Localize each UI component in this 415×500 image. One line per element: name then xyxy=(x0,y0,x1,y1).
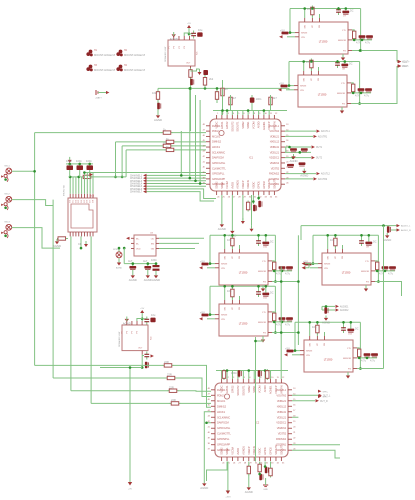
svg-text:U9: U9 xyxy=(366,247,370,249)
junction U8 output xyxy=(358,102,361,105)
wire U12 cc stub xyxy=(366,356,368,359)
power U4 vcc xyxy=(140,308,145,316)
svg-text:PDN2: PDN2 xyxy=(212,129,219,133)
svg-text:MOUNT-HOLE2.8: MOUNT-HOLE2.8 xyxy=(94,68,115,72)
svg-text:+5V: +5V xyxy=(200,311,205,315)
junction U7 out xyxy=(361,39,364,42)
wire IC2 top bus xyxy=(216,370,288,372)
net flag AUDIO1 xyxy=(336,305,350,309)
svg-text:12: 12 xyxy=(282,377,285,379)
svg-text:VC: VC xyxy=(232,307,234,310)
svg-text:VC: VC xyxy=(311,78,313,81)
wire IC1 out R11 xyxy=(285,178,313,180)
capacitor Cd U12 xyxy=(371,353,378,357)
wire U10 out bus xyxy=(272,270,292,272)
svg-text:SDOUT2: SDOUT2 xyxy=(274,444,278,455)
svg-text:4k7: 4k7 xyxy=(232,96,237,100)
junction U8 top xyxy=(302,60,305,63)
wire U9 sw xyxy=(327,235,329,249)
wire rail 298 xyxy=(297,235,299,345)
wire IC1 top pin drop xyxy=(252,111,254,116)
wire IC2 bot6 xyxy=(227,462,229,491)
junction U8 vin xyxy=(288,84,291,87)
svg-text:VCOM: VCOM xyxy=(258,385,262,393)
svg-text:CHANNEL5: CHANNEL5 xyxy=(130,185,143,188)
svg-text:41: 41 xyxy=(203,161,206,163)
svg-text:GPIO1: GPIO1 xyxy=(225,385,229,393)
ground SD xyxy=(53,239,61,248)
svg-text:VIN: VIN xyxy=(300,90,304,92)
wire U9 left rail xyxy=(313,235,318,263)
wire U7 gnd stub xyxy=(342,54,344,58)
wire cap C22 stub xyxy=(89,164,91,166)
wire cap U3-0 low xyxy=(132,270,134,273)
wire U12 sw xyxy=(309,322,311,336)
junction audio bus xyxy=(382,224,385,227)
wire U9 fb xyxy=(342,245,344,249)
svg-text:SDIN2: SDIN2 xyxy=(247,385,251,393)
svg-text:VC: VC xyxy=(335,256,337,259)
svg-text:40: 40 xyxy=(208,432,211,434)
svg-text:8: 8 xyxy=(260,377,262,379)
wire U10 row1 xyxy=(272,260,274,262)
svg-text:CHANNEL6: CHANNEL6 xyxy=(130,188,143,191)
capacitor C21 xyxy=(77,165,84,170)
wire U11 vc xyxy=(231,286,233,300)
svg-text:MOUNT-HOLE2.8: MOUNT-HOLE2.8 xyxy=(124,68,145,72)
net flag U9 a xyxy=(302,262,305,265)
wire U4 out down xyxy=(141,355,143,368)
svg-text:OUT_R: OUT_R xyxy=(320,401,328,403)
capacitor C52 xyxy=(287,164,294,168)
resistor R36 xyxy=(246,201,249,212)
capacitor Cc U8 xyxy=(358,88,365,92)
resistor R32 xyxy=(221,87,224,98)
junction crossing xyxy=(254,340,257,343)
svg-text:VCOM: VCOM xyxy=(251,121,255,129)
svg-text:1: 1 xyxy=(217,113,219,115)
capacitor Cb U9 xyxy=(365,242,372,246)
svg-text:DAI/FSCM: DAI/FSCM xyxy=(212,156,225,160)
wire cap U3-0 xyxy=(132,264,134,266)
svg-text:ERROR: ERROR xyxy=(338,40,346,42)
wire C60 stub xyxy=(386,225,388,228)
IC U7 boost regulator LT1930 xyxy=(295,16,352,55)
svg-text:CD: CD xyxy=(78,243,82,246)
svg-text:29: 29 xyxy=(249,462,252,464)
svg-text:26: 26 xyxy=(228,196,231,198)
junction riser xyxy=(114,176,117,179)
junction U9 top xyxy=(368,234,371,237)
wire IC2 bot1 xyxy=(207,462,228,482)
mount hole H3 xyxy=(86,65,115,72)
wire U7 output xyxy=(352,51,397,62)
junction bot xyxy=(257,197,260,200)
net flag AUDIO2 xyxy=(336,308,350,312)
wire U8 left rail xyxy=(289,62,294,86)
wire riser SD3 xyxy=(125,150,127,177)
wire IC1 top pin drop xyxy=(226,111,228,116)
wire IC2 right4 xyxy=(292,450,340,458)
wire vertical rail A xyxy=(34,133,36,366)
svg-text:33: 33 xyxy=(271,462,274,464)
svg-text:32: 32 xyxy=(266,462,269,464)
junction U7 top xyxy=(311,7,314,10)
wire IC2 bot2 low xyxy=(248,474,250,485)
wire net to IC1 pin2 xyxy=(35,132,162,134)
svg-text:VREFN: VREFN xyxy=(272,121,276,130)
svg-text:VDDC: VDDC xyxy=(251,182,255,189)
wire U7 left rail xyxy=(290,9,295,33)
ground C50 xyxy=(289,154,297,163)
junction U8 top xyxy=(344,60,347,63)
wire R34 drop xyxy=(270,95,272,111)
wire IC2 top pin drop xyxy=(231,371,233,380)
wire U10 top loop xyxy=(210,234,275,236)
svg-text:SPEAKER 3.2W: SPEAKER 3.2W xyxy=(164,47,167,62)
IC U11 boost regulator LT1930 xyxy=(215,298,272,337)
capacitor Cd U8 xyxy=(365,88,372,92)
svg-text:PG: PG xyxy=(263,282,266,284)
svg-text:U8: U8 xyxy=(342,69,346,71)
wire U10 sw xyxy=(224,235,226,249)
svg-text:SDOUT1: SDOUT1 xyxy=(279,444,283,455)
wire cap C21 low xyxy=(79,170,81,177)
wire U11 gnd stub xyxy=(262,336,264,340)
svg-text:AVDD: AVDD xyxy=(230,182,234,189)
junction mic gnd xyxy=(4,178,7,181)
svg-text:EN: EN xyxy=(151,244,154,246)
svg-text:VREFP: VREFP xyxy=(247,446,251,455)
wire U8 output xyxy=(351,66,397,104)
wire net SD bus A2 xyxy=(92,176,127,178)
power U12 +BATT xyxy=(287,350,294,353)
svg-text:AGND: AGND xyxy=(322,321,330,325)
capacitor C4A xyxy=(144,352,149,360)
wire IC1 bot pin2 down xyxy=(221,195,223,222)
wire U9 capfb xyxy=(361,235,363,241)
svg-text:PG: PG xyxy=(342,104,345,106)
wire U9 vc xyxy=(334,235,336,249)
svg-text:AGND: AGND xyxy=(170,37,178,41)
svg-text:GPIO2: GPIO2 xyxy=(262,181,266,189)
svg-text:IN-: IN- xyxy=(136,244,139,246)
inductor L U10 xyxy=(231,237,234,248)
svg-text:47: 47 xyxy=(203,130,206,132)
connector JP2 audio in xyxy=(397,224,412,232)
capacitor C41 xyxy=(197,32,202,36)
svg-text:VIN: VIN xyxy=(221,268,225,270)
svg-text:13: 13 xyxy=(293,388,296,390)
svg-text:4: 4 xyxy=(239,377,241,379)
junction U11 vin xyxy=(209,313,212,316)
svg-text:AOUTL1: AOUTL1 xyxy=(321,130,331,133)
svg-text:GPIO1: GPIO1 xyxy=(220,121,224,129)
net flag OUT_R xyxy=(316,399,329,403)
wire net CHANNEL6 xyxy=(147,189,217,199)
svg-text:10u: 10u xyxy=(312,325,317,329)
svg-text:4: 4 xyxy=(233,113,235,115)
wire IC2 bot3 xyxy=(259,462,261,465)
svg-text:AGND: AGND xyxy=(289,159,297,163)
svg-text:AGND: AGND xyxy=(144,278,152,282)
net flag SD VDD xyxy=(90,173,93,176)
svg-text:VC: VC xyxy=(232,256,234,259)
power U9 +BATT xyxy=(305,263,312,266)
svg-text:IC5: IC5 xyxy=(197,51,199,55)
svg-text:AGND: AGND xyxy=(383,238,391,242)
svg-text:VDBL31: VDBL31 xyxy=(270,145,280,149)
svg-text:41: 41 xyxy=(208,427,211,429)
wire riser SD1 xyxy=(115,142,117,177)
svg-text:46: 46 xyxy=(203,135,206,137)
svg-text:MCLK1: MCLK1 xyxy=(217,399,226,403)
svg-text:AGND: AGND xyxy=(245,490,253,494)
junction U4 bottom xyxy=(141,366,144,369)
svg-text:10u: 10u xyxy=(198,28,203,32)
svg-text:GND: GND xyxy=(263,489,268,491)
svg-text:100n: 100n xyxy=(231,371,237,375)
capacitor C20 xyxy=(67,165,74,170)
svg-text:U12: U12 xyxy=(348,334,353,336)
wire IC1 bot pin6 down xyxy=(242,195,244,218)
LED LED1 xyxy=(113,249,122,258)
wire U8 cd stub xyxy=(368,91,370,94)
svg-text:SDOUT2: SDOUT2 xyxy=(230,121,234,132)
junction U7 top xyxy=(337,7,340,10)
svg-text:VDBL21: VDBL21 xyxy=(270,134,280,138)
wire IC1 top pin drop xyxy=(263,111,265,116)
svg-text:AGND: AGND xyxy=(116,267,123,270)
junction cap bus xyxy=(147,262,150,265)
svg-text:SDOUT1: SDOUT1 xyxy=(236,121,240,132)
wire net CHANNEL2 xyxy=(147,177,207,179)
wire vertical rail D xyxy=(90,236,92,403)
svg-text:SD1: SD1 xyxy=(90,196,95,198)
net flag AOUTR1 xyxy=(314,135,328,139)
svg-text:6: 6 xyxy=(243,113,245,115)
wire SD pin 5 xyxy=(81,177,83,194)
wire U10 vc xyxy=(231,235,233,249)
capacitor C61 xyxy=(324,307,328,313)
junction U11 top xyxy=(257,285,260,288)
svg-text:H4: H4 xyxy=(124,65,128,67)
svg-text:GPIO/CASL: GPIO/CASL xyxy=(217,426,231,430)
IC U9 boost regulator LT1930 xyxy=(318,247,375,286)
wire U9 top loop xyxy=(313,234,378,236)
junction mid xyxy=(180,174,183,177)
svg-text:HXDL12: HXDL12 xyxy=(270,140,280,144)
ground C31 xyxy=(144,273,152,282)
resistor R62 xyxy=(247,465,250,476)
net flag AOUTR2 xyxy=(314,177,328,181)
capacitor Cd U11 xyxy=(286,317,293,321)
wire U9 row1 xyxy=(375,260,377,262)
wire U4 in link xyxy=(137,319,142,322)
junction U12 top xyxy=(342,321,345,324)
junction caps xyxy=(88,163,91,166)
svg-text:42: 42 xyxy=(203,156,206,158)
svg-text:VIN: VIN xyxy=(221,319,225,321)
wire audio bus left drop xyxy=(300,226,302,240)
wire U11 vin xyxy=(207,318,215,320)
wire step net1 xyxy=(35,364,163,366)
wire step net4 b xyxy=(180,402,211,404)
svg-text:11: 11 xyxy=(277,377,280,379)
svg-text:3: 3 xyxy=(228,113,230,115)
svg-text:SDOUT2: SDOUT2 xyxy=(267,178,271,189)
svg-text:AGND: AGND xyxy=(218,227,226,231)
wire IC1 out R10 xyxy=(285,173,316,175)
svg-text:IC4: IC4 xyxy=(151,336,153,340)
resistor R40 xyxy=(189,68,192,79)
capacitor Ca U9 xyxy=(359,238,364,246)
wire IC1 top pin drop xyxy=(242,111,244,116)
wire U12 cd stub xyxy=(374,356,376,359)
svg-text:LT1930: LT1930 xyxy=(239,322,248,326)
wire cap C20 stub xyxy=(69,164,71,166)
wire IC2 top pin drop xyxy=(248,371,250,380)
svg-text:IC1: IC1 xyxy=(249,156,254,160)
inductor L U11 xyxy=(231,288,234,299)
capacitor C53 xyxy=(299,162,306,166)
junction U10 out xyxy=(281,270,284,273)
svg-text:10u: 10u xyxy=(307,7,312,11)
wire vertical mid2 xyxy=(189,88,191,178)
wire U9 cd stub xyxy=(392,269,394,272)
wire U8 top loop right xyxy=(351,62,360,104)
wire cap C22 low xyxy=(89,170,91,177)
microphone MIC3 xyxy=(1,222,12,238)
wire U11 out bus xyxy=(272,321,292,323)
svg-text:40: 40 xyxy=(203,167,206,169)
svg-text:22R: 22R xyxy=(164,360,169,364)
wire drop 222b xyxy=(222,88,224,110)
svg-text:AVDD: AVDD xyxy=(257,121,261,128)
svg-text:U10: U10 xyxy=(263,247,268,249)
wire net MIC1 xyxy=(12,170,35,172)
wire audio2 xyxy=(322,309,335,311)
svg-text:MOUNT-HOLE2.8: MOUNT-HOLE2.8 xyxy=(124,53,145,57)
svg-text:OU: OU xyxy=(151,238,155,240)
ground U12 main xyxy=(346,376,350,379)
svg-text:24: 24 xyxy=(217,196,220,198)
capacitor Ca U7 xyxy=(336,7,341,15)
wire riser SD2 xyxy=(121,146,123,177)
junction U12 top xyxy=(316,321,319,324)
junction mic gnd xyxy=(4,207,7,210)
svg-text:RXDM12: RXDM12 xyxy=(276,437,287,441)
wire net CHANNEL7 xyxy=(147,192,215,201)
svg-text:ERROR: ERROR xyxy=(258,271,266,273)
svg-text:SDOUT1: SDOUT1 xyxy=(241,385,245,396)
junction cap bus xyxy=(132,262,135,265)
wire net to IC1 pin4 b xyxy=(172,145,206,147)
junction U11 top xyxy=(231,285,234,288)
wire net to IC1 pin4 xyxy=(122,145,162,147)
resistor R31 xyxy=(203,78,206,86)
capacitor Cc U7 xyxy=(359,35,366,39)
wire net SD bus B xyxy=(84,172,206,174)
wire SD pin 4 xyxy=(78,177,80,194)
svg-text:LT1930: LT1930 xyxy=(319,40,328,44)
svg-text:VDDL21: VDDL21 xyxy=(277,415,287,419)
svg-text:AGND: AGND xyxy=(129,278,137,282)
wire net to IC1 pin3 b xyxy=(175,141,206,143)
junction U7 vin xyxy=(289,31,292,34)
resistor R22 xyxy=(162,144,173,147)
svg-text:VD3TI2: VD3TI2 xyxy=(271,166,280,170)
capacitor C48 xyxy=(144,317,149,325)
svg-text:43: 43 xyxy=(208,416,211,418)
capacitor C42 xyxy=(190,79,194,85)
wire U4 gnd xyxy=(126,319,128,321)
svg-text:CHANNEL4: CHANNEL4 xyxy=(130,183,143,186)
IC U5 amplifier xyxy=(164,36,199,70)
wire U10 capb stub xyxy=(265,235,267,241)
svg-text:SCLK/MMC: SCLK/MMC xyxy=(217,415,230,419)
svg-text:VO1: VO1 xyxy=(403,62,408,64)
capacitor Cb U12 xyxy=(347,329,354,333)
svg-text:21: 21 xyxy=(293,432,296,434)
junction rail xyxy=(80,247,83,250)
wire U10 capfb xyxy=(258,235,260,241)
junction U10 top xyxy=(257,234,260,237)
power U10 +BATT xyxy=(202,263,209,266)
svg-text:VCOM: VCOM xyxy=(230,446,234,454)
wire U9 cc stub xyxy=(384,269,386,272)
wire U8 sw xyxy=(303,62,305,72)
svg-text:5: 5 xyxy=(244,377,246,379)
wire U7 capfb xyxy=(338,9,340,11)
mount hole H1 xyxy=(86,50,115,57)
resistor R U10 xyxy=(273,260,276,271)
power +3V bottom-left xyxy=(128,482,133,491)
svg-text:+3V: +3V xyxy=(128,489,132,491)
capacitor Cd U10 xyxy=(286,266,293,270)
svg-text:RXDM12: RXDM12 xyxy=(269,172,280,176)
svg-text:100n: 100n xyxy=(256,97,262,101)
svg-text:VDBL31: VDBL31 xyxy=(277,410,287,414)
wire IC1 top bus xyxy=(213,110,287,112)
svg-text:100n: 100n xyxy=(86,159,92,163)
microphone MIC1 xyxy=(1,165,12,181)
wire U12 top loop right xyxy=(357,322,360,368)
wire U11 top loop xyxy=(210,285,275,287)
junction mic gnd xyxy=(4,235,7,238)
junction C61 xyxy=(325,305,328,308)
wire to JP2 a xyxy=(387,225,397,227)
svg-text:4.7u: 4.7u xyxy=(388,272,394,276)
wire U10 top loop right xyxy=(272,235,275,281)
svg-text:AGND: AGND xyxy=(123,322,131,326)
wire net audio bus xyxy=(301,225,387,227)
wire IC1 top pin drop xyxy=(237,111,239,116)
capacitor Cb U11 xyxy=(262,293,269,297)
svg-text:VREFN: VREFN xyxy=(279,385,283,394)
svg-text:10u: 10u xyxy=(330,238,335,242)
svg-text:48: 48 xyxy=(208,388,211,390)
svg-text:ERROR: ERROR xyxy=(337,93,345,95)
svg-text:VDD: VDD xyxy=(136,249,141,251)
capacitor C40 xyxy=(191,31,196,39)
inductor L U9 xyxy=(334,237,337,248)
svg-text:43: 43 xyxy=(203,151,206,153)
junction U12 top xyxy=(350,321,353,324)
wire U8 out bus xyxy=(351,92,371,94)
svg-text:2: 2 xyxy=(222,113,224,115)
capacitor Cc U12 xyxy=(364,353,371,357)
